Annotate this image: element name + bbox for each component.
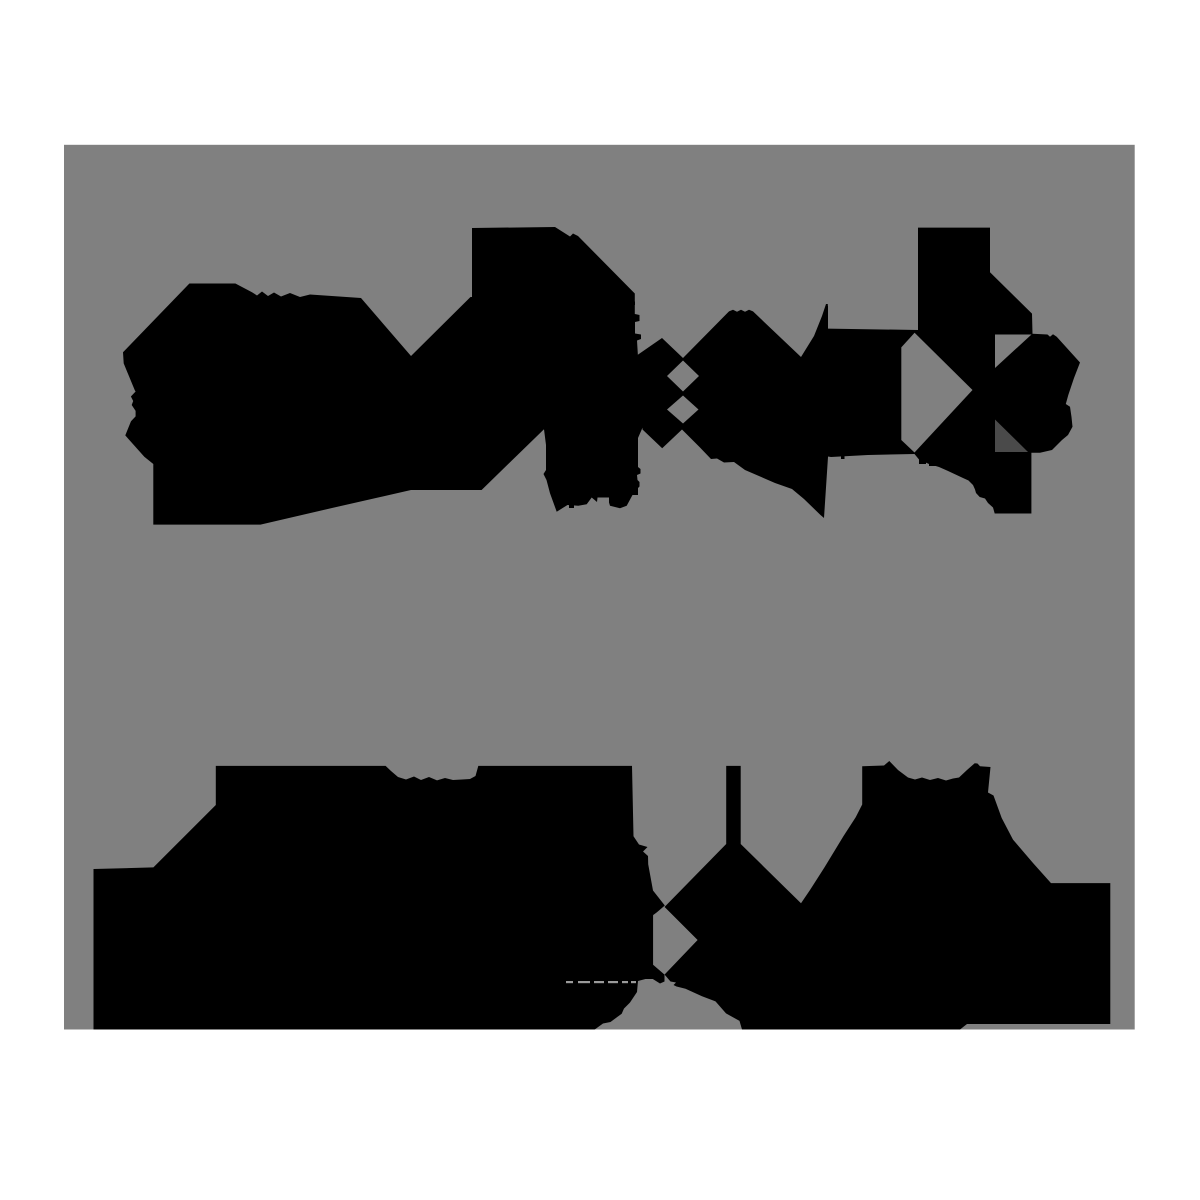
- pin tick at op-amp output node: [841, 455, 845, 459]
- resistor R2 zigzag + op-amp U1 region + capacitor C1 plate (middle blob): [636, 304, 828, 518]
- dashed net label line near node A: [595, 302, 635, 306]
- arrow of dependent source B1 (half-tone fill): [995, 420, 1028, 453]
- ground / bottom-left source VS2 mass: [94, 766, 665, 1030]
- resistor R2 lower diamond hole: [667, 396, 699, 424]
- wire stub + dependent source B2 + source VS3 circle (bottom right blob): [665, 761, 1111, 1030]
- capacitor C2 gap triangle: [995, 335, 1032, 369]
- schematic canvas background: [64, 145, 1135, 1030]
- dependent source B1 diamond + capacitor C2 + node wiring (right top blob): [826, 228, 1080, 514]
- tiny value label dots under op-amp U1: [561, 501, 574, 508]
- dependent source B2 diamond window: [653, 907, 697, 975]
- wire / left input mesh with source VS1 and resistor R1 (thick-stroke blob): [123, 227, 643, 525]
- dashed ground reference line (gray on black): [566, 981, 636, 983]
- resistor R2 upper diamond hole: [667, 361, 699, 392]
- value label bumps under node B: [919, 459, 936, 466]
- dependent source B1 diamond window: [901, 333, 972, 453]
